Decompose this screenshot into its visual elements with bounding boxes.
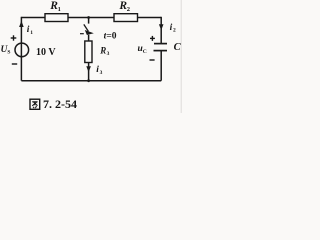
svg-text:7. 2-54: 7. 2-54 [43, 97, 77, 111]
svg-text:1: 1 [58, 6, 61, 13]
svg-text:3: 3 [100, 70, 103, 76]
svg-text:2: 2 [173, 28, 176, 34]
svg-text:2: 2 [127, 6, 130, 13]
svg-text:C: C [143, 49, 147, 55]
svg-text:R: R [99, 45, 106, 55]
svg-text:10 V: 10 V [36, 47, 56, 58]
svg-text:C: C [174, 42, 182, 53]
svg-text:S: S [7, 50, 10, 56]
svg-text:1: 1 [30, 30, 33, 36]
svg-text:3: 3 [107, 51, 110, 57]
svg-text:=0: =0 [106, 32, 116, 42]
